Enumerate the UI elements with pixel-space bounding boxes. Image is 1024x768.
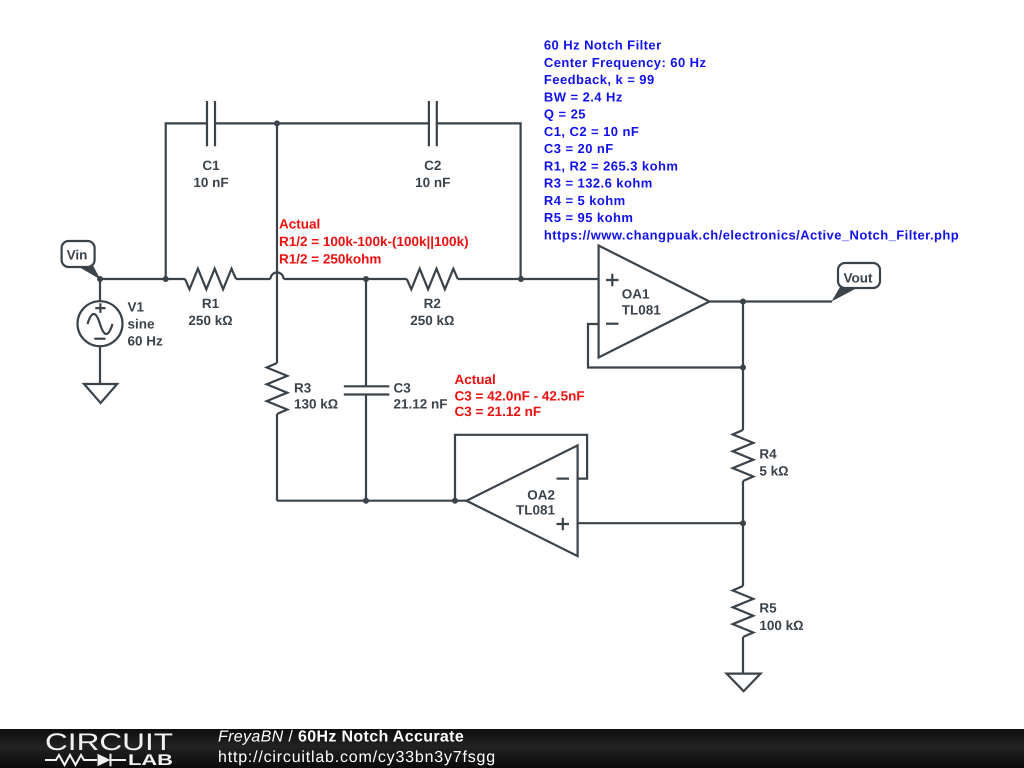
svg-text:V1: V1 (128, 300, 145, 315)
voltage source V1 (78, 301, 123, 346)
svg-text:R5: R5 (759, 601, 777, 616)
footer bar (0, 729, 1024, 768)
wire main horizontal input net (100, 278, 185, 280)
ground symbol under V1 (84, 384, 117, 403)
svg-text:Feedback, k = 99: Feedback, k = 99 (544, 72, 655, 87)
svg-text:LAB: LAB (128, 752, 173, 768)
wire hop over vertical net (271, 273, 284, 280)
resistor R1 (185, 269, 236, 290)
wire OA2 noninverting input to R4/R5 node (578, 522, 743, 524)
wire OA1 output down to R4 (742, 302, 744, 431)
capacitor C2 (429, 101, 437, 146)
wire C2 right down to OA1 input (437, 123, 521, 279)
op-amp OA2 (467, 445, 578, 556)
wire R5 to ground (742, 637, 744, 674)
label R3 value (294, 380, 338, 411)
label Vin (67, 247, 88, 262)
svg-text:R3 = 132.6 kohm: R3 = 132.6 kohm (544, 176, 653, 191)
flag pointer Vout (832, 287, 858, 302)
label Vout (844, 271, 873, 286)
junction node Vin (97, 276, 103, 282)
svg-text:C1, C2 = 10 nF: C1, C2 = 10 nF (544, 124, 639, 139)
svg-text:BW = 2.4 Hz: BW = 2.4 Hz (544, 89, 623, 104)
wire OA1 output to Vout (710, 300, 833, 302)
svg-text:https://www.changpuak.ch/elect: https://www.changpuak.ch/electronics/Act… (544, 227, 959, 242)
flag Vout (838, 263, 880, 288)
svg-text:R5 = 95 kohm: R5 = 95 kohm (544, 210, 633, 225)
label C3 value (394, 380, 448, 411)
wire OA1 feedback (588, 324, 743, 368)
OA2 inverting input pin (557, 478, 570, 480)
junction node OA1 output (740, 299, 746, 305)
flag pointer Vin (79, 266, 101, 280)
svg-text:TL081: TL081 (622, 303, 662, 318)
svg-text:TL081: TL081 (516, 503, 556, 518)
svg-text:R1/2 = 100k-100k-(100k||100k): R1/2 = 100k-100k-(100k||100k) (279, 234, 469, 249)
svg-text:C3 = 42.0nF - 42.5nF: C3 = 42.0nF - 42.5nF (455, 388, 585, 403)
svg-text:10 nF: 10 nF (193, 175, 228, 190)
svg-text:R4: R4 (759, 447, 777, 462)
svg-text:C1: C1 (202, 158, 220, 173)
svg-text:C2: C2 (424, 158, 441, 173)
wire R3 bottom (276, 414, 278, 501)
svg-text:Q = 25: Q = 25 (544, 107, 586, 122)
OA2 noninverting input pin (557, 518, 570, 531)
junction node R4/R5 (740, 520, 746, 526)
wire hop to R2 (284, 278, 407, 280)
wire R4 to R5 (742, 481, 744, 586)
svg-text:C3 = 21.12 nF: C3 = 21.12 nF (455, 404, 542, 419)
annotation red note R1/2 (279, 217, 469, 267)
junction node C2/OA1 input (518, 276, 524, 282)
wire R1 to hop (236, 278, 271, 280)
svg-text:C3: C3 (394, 380, 412, 395)
junction node top net (274, 120, 280, 126)
flag Vin (62, 241, 95, 267)
svg-text:R2: R2 (424, 296, 441, 311)
label OA2 (516, 487, 556, 517)
wire OA2 feedback loop (455, 435, 587, 501)
OA1 noninverting input pin (606, 274, 619, 287)
svg-text:60 Hz Notch Filter: 60 Hz Notch Filter (544, 38, 662, 53)
wire C3 branch from main net (365, 279, 367, 386)
wire R2 to OA1 noninverting input (458, 278, 599, 280)
junction node C1 left (163, 276, 169, 282)
svg-text:5 kΩ: 5 kΩ (759, 463, 788, 478)
label C2 value (415, 158, 450, 190)
svg-text:http://circuitlab.com/cy33bn3y: http://circuitlab.com/cy33bn3y7fsgg (218, 749, 496, 766)
op-amp OA1 (599, 246, 710, 358)
svg-text:OA2: OA2 (527, 487, 555, 502)
annotation blue notes (544, 38, 959, 243)
svg-text:100 kΩ: 100 kΩ (759, 618, 803, 633)
svg-text:250 kΩ: 250 kΩ (410, 313, 454, 328)
svg-text:Vin: Vin (67, 247, 88, 262)
junction node OA2 output (452, 498, 458, 504)
footer title (218, 729, 496, 766)
wire C3 bottom (365, 395, 367, 501)
svg-text:R1: R1 (202, 296, 220, 311)
wire bottom net to OA2 output (277, 500, 467, 502)
svg-text:R3: R3 (294, 380, 312, 395)
wire C1 left branch vertical (166, 123, 207, 279)
ground symbol under R5 (727, 674, 761, 692)
junction node C3 bottom (363, 498, 369, 504)
svg-text:60 Hz: 60 Hz (128, 334, 164, 349)
svg-text:10 nF: 10 nF (415, 175, 450, 190)
svg-text:OA1: OA1 (622, 287, 650, 302)
label R2 value (410, 296, 454, 328)
logo LAB (128, 752, 173, 768)
resistor R4 (733, 430, 754, 481)
svg-text:R1/2 = 250kohm: R1/2 = 250kohm (279, 252, 381, 267)
wire C1 to C2 top net (215, 122, 429, 124)
svg-text:Vout: Vout (844, 271, 873, 286)
annotation red note C3 (455, 372, 585, 419)
svg-text:Actual: Actual (279, 217, 320, 232)
wire V1 to ground (99, 346, 101, 384)
label C1 value (193, 158, 228, 190)
label R5 value (759, 601, 803, 634)
label R4 value (759, 447, 788, 479)
svg-text:FreyaBN / 60Hz Notch Accurate: FreyaBN / 60Hz Notch Accurate (218, 729, 464, 746)
junction node OA1 feedback (740, 365, 746, 371)
logo resistor-diode line (45, 754, 126, 766)
svg-text:sine: sine (128, 317, 156, 332)
logo CIRCUIT (45, 729, 173, 756)
svg-text:R4 = 5 kohm: R4 = 5 kohm (544, 193, 626, 208)
label OA1 (622, 287, 662, 318)
label R1 value (188, 296, 232, 328)
svg-text:21.12 nF: 21.12 nF (394, 397, 448, 412)
svg-text:250 kΩ: 250 kΩ (188, 313, 232, 328)
svg-text:Center Frequency: 60 Hz: Center Frequency: 60 Hz (544, 55, 707, 70)
OA1 inverting input pin (606, 323, 619, 325)
wire Vin node to V1 (99, 279, 101, 302)
svg-text:C3 = 20 nF: C3 = 20 nF (544, 141, 614, 156)
resistor R5 (733, 586, 754, 637)
resistor R3 (267, 363, 288, 414)
capacitor C1 (207, 101, 215, 146)
svg-text:R1, R2 = 265.3 kohm: R1, R2 = 265.3 kohm (544, 158, 678, 173)
capacitor C3 (344, 386, 390, 394)
label V1 value (128, 300, 164, 349)
junction node C3 top (363, 276, 369, 282)
svg-text:130 kΩ: 130 kΩ (294, 397, 338, 412)
logo diode triangle (98, 754, 111, 766)
wire top node down through hop to R3 (276, 123, 278, 363)
resistor R2 (407, 269, 458, 290)
svg-text:Actual: Actual (455, 372, 496, 387)
